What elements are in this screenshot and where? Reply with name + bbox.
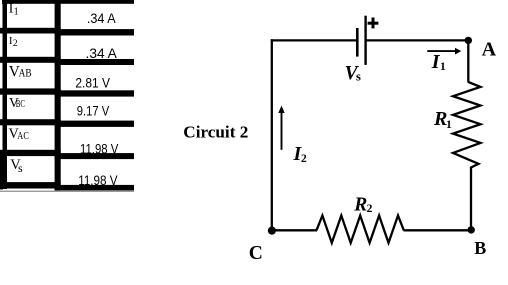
table row divider 5 right bbox=[55, 153, 134, 159]
resistor R2 bbox=[317, 216, 404, 243]
table row divider 2 left bbox=[0, 57, 61, 63]
table row divider 4 left bbox=[0, 119, 61, 125]
svg-text:C: C bbox=[249, 243, 263, 264]
svg-text:.34 A: .34 A bbox=[86, 46, 117, 61]
table row divider 3 left bbox=[0, 88, 61, 94]
wire right lower segment (R1 to node B) bbox=[470, 167, 472, 231]
svg-text:A: A bbox=[482, 39, 497, 61]
node C bbox=[268, 227, 276, 235]
battery plus sign bbox=[368, 18, 379, 29]
table bottom grey rule bbox=[0, 191, 134, 192]
wire bottom-right segment (R2 to node B) bbox=[404, 229, 472, 231]
table row divider 3 right bbox=[55, 90, 134, 96]
svg-text:11.98 V: 11.98 V bbox=[80, 142, 118, 157]
table row divider 1 left bbox=[0, 28, 61, 34]
svg-text:2: 2 bbox=[301, 153, 307, 165]
svg-text:9.17 V: 9.17 V bbox=[77, 103, 109, 118]
battery Vs positive plate (long line) bbox=[364, 16, 366, 65]
battery Vs negative plate (short line) bbox=[356, 28, 359, 57]
svg-text:2.81 V: 2.81 V bbox=[75, 76, 110, 91]
current arrow I2 bbox=[278, 106, 284, 150]
wire left side bbox=[271, 39, 273, 230]
svg-text:2: 2 bbox=[13, 39, 18, 49]
table row divider 5 left bbox=[0, 150, 61, 156]
svg-text:R: R bbox=[353, 194, 367, 215]
svg-text:s: s bbox=[356, 70, 361, 84]
resistor R1 bbox=[453, 82, 481, 168]
wire top-left segment (corner to battery) bbox=[271, 39, 357, 41]
table left border bbox=[3, 0, 8, 189]
current arrow I1 bbox=[427, 48, 461, 55]
svg-text:.34 A: .34 A bbox=[87, 11, 116, 26]
table bottom border right bbox=[55, 185, 134, 191]
svg-text:11.98 V: 11.98 V bbox=[78, 173, 117, 188]
table row divider 4 right bbox=[55, 121, 134, 127]
table bottom border left bbox=[0, 182, 61, 188]
svg-text:1: 1 bbox=[440, 61, 446, 73]
svg-text:BC: BC bbox=[16, 99, 25, 110]
svg-text:AB: AB bbox=[19, 66, 32, 80]
svg-text:2: 2 bbox=[367, 203, 373, 215]
svg-text:s: s bbox=[18, 161, 23, 175]
svg-text:Circuit 2: Circuit 2 bbox=[183, 123, 248, 142]
table row divider 2 right bbox=[55, 59, 134, 65]
wire right upper segment (node A to R1) bbox=[467, 40, 469, 82]
node B bbox=[468, 226, 475, 233]
svg-text:B: B bbox=[474, 238, 486, 258]
svg-text:1: 1 bbox=[446, 119, 452, 131]
table row divider 1 right bbox=[55, 29, 134, 35]
table middle column divider bbox=[55, 0, 61, 190]
svg-text:1: 1 bbox=[14, 6, 19, 17]
wire top-right segment (battery to node A) bbox=[366, 39, 469, 41]
node A bbox=[465, 37, 472, 44]
table outer left edge bar bbox=[0, 150, 3, 190]
wire bottom-left segment (node C to R2) bbox=[272, 229, 317, 231]
svg-text:AC: AC bbox=[17, 130, 29, 142]
table top border line bbox=[2, 0, 134, 4]
